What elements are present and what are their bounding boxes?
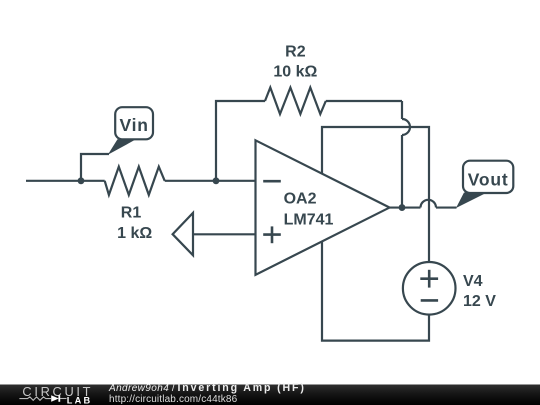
svg-text:1 kΩ: 1 kΩ (117, 225, 152, 242)
svg-text:LAB: LAB (67, 395, 92, 405)
svg-text:10 kΩ: 10 kΩ (273, 64, 317, 81)
svg-text:R2: R2 (285, 43, 306, 60)
svg-text:R1: R1 (121, 204, 142, 221)
svg-text:LM741: LM741 (284, 211, 334, 228)
svg-text:12 V: 12 V (463, 293, 496, 310)
svg-text:OA2: OA2 (284, 190, 317, 207)
svg-text:http://circuitlab.com/c44tk86: http://circuitlab.com/c44tk86 (109, 394, 238, 405)
svg-text:Vout: Vout (468, 169, 509, 189)
svg-text:Andrew9oh4 / Inverting Amp (HF: Andrew9oh4 / Inverting Amp (HF) (108, 382, 306, 394)
svg-text:V4: V4 (463, 273, 483, 290)
svg-text:Vin: Vin (119, 115, 148, 135)
